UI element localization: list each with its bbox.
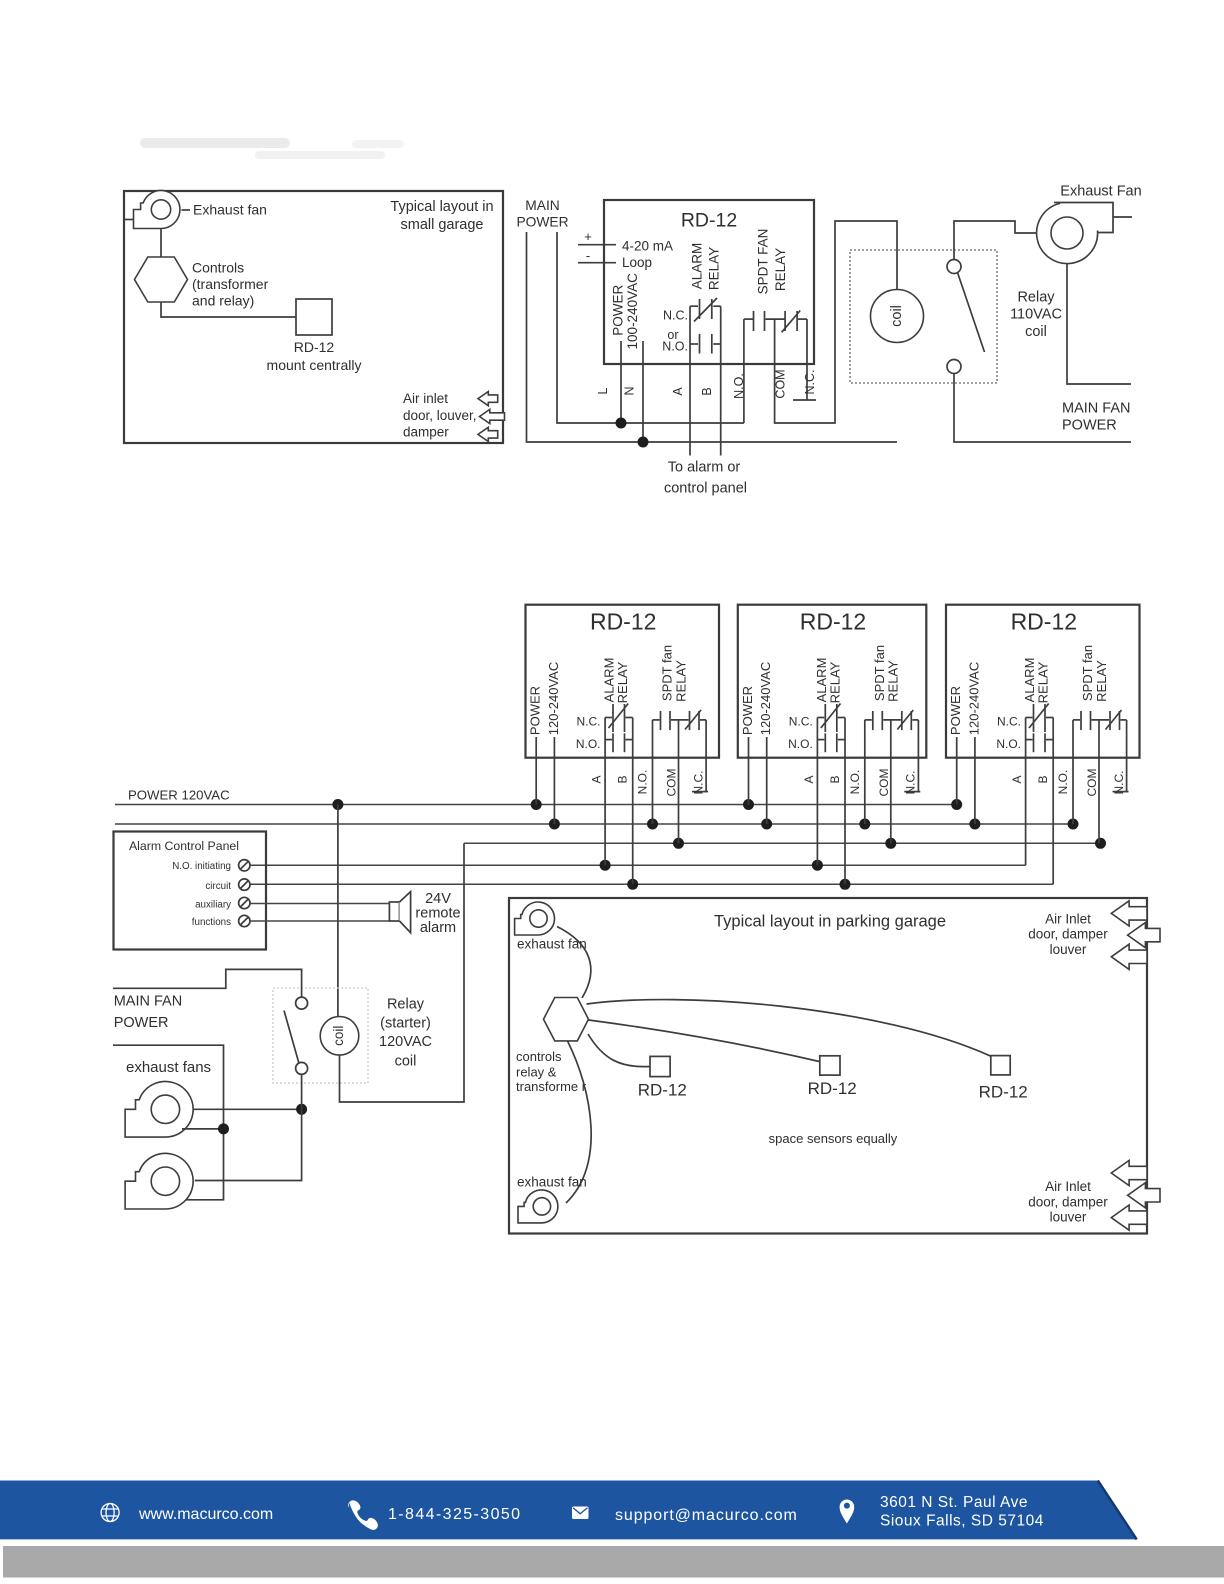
wire: terminal COM U4	[1098, 720, 1100, 843]
RD-12 unit box U2	[526, 605, 720, 758]
wire: terminal N.C. stub U4	[1126, 720, 1128, 792]
svg-text:Air Inlet: Air Inlet	[1045, 1179, 1091, 1194]
svg-text:RD-12: RD-12	[808, 1079, 857, 1098]
air inlet arrow G5	[1128, 1183, 1160, 1208]
exhaust fan F1 (small garage)	[134, 191, 180, 229]
junction dot: U2 COM on COM bus	[673, 838, 684, 849]
wire: fan outlet stub	[1114, 216, 1133, 218]
wire: main power line L	[527, 232, 898, 442]
wire: hexagon to RD-12 square	[161, 302, 296, 317]
junction dot: U2 B on initiating bus B	[627, 879, 638, 890]
wire: terminal N.C. stub U2	[705, 720, 707, 792]
SPDT fan relay contact U1	[744, 311, 807, 333]
svg-text:(starter): (starter)	[380, 1016, 431, 1032]
svg-text:Alarm Control Panel: Alarm Control Panel	[129, 839, 239, 853]
controls hexagon (transformer and relay)	[135, 257, 188, 302]
svg-text:L: L	[596, 387, 610, 394]
svg-text:B: B	[828, 775, 842, 783]
svg-text:RELAY: RELAY	[886, 660, 901, 702]
svg-text:Sioux Falls, SD 57104: Sioux Falls, SD 57104	[880, 1513, 1044, 1530]
wire: terminal T4 to remote alarm	[250, 920, 389, 922]
svg-text:N.O.: N.O.	[848, 770, 862, 795]
bus wire: initiating A	[250, 864, 1026, 866]
wire: terminal COM U3	[890, 720, 892, 843]
terminal T1	[239, 860, 250, 871]
svg-text:+: +	[584, 229, 592, 244]
svg-text:N.C.: N.C.	[904, 771, 918, 795]
RD-12 unit box U3	[738, 605, 927, 758]
svg-text:B: B	[616, 775, 630, 783]
wire: main fan power feed 2 to exhaust fans	[113, 1045, 224, 1200]
svg-text:POWER: POWER	[1062, 418, 1117, 434]
RD-12 sensor square S3	[991, 1056, 1010, 1075]
terminal T3	[239, 897, 250, 908]
junction dot N	[638, 437, 649, 448]
svg-text:Controls: Controls	[192, 260, 244, 276]
junction dot: switch leg and fan F3	[296, 1104, 307, 1115]
svg-text:COM: COM	[1085, 769, 1099, 797]
svg-text:small garage: small garage	[400, 217, 483, 233]
bus wire: initiating B	[250, 883, 1053, 885]
svg-text:COM: COM	[773, 369, 787, 398]
svg-text:SPDT fan: SPDT fan	[1080, 645, 1095, 701]
wire: power neutral lead U3	[766, 737, 768, 824]
relay coil K1	[871, 290, 924, 343]
svg-text:A: A	[802, 775, 816, 783]
svg-text:SPDT fan: SPDT fan	[872, 645, 887, 701]
RD-12 sensor square (small garage)	[296, 299, 332, 335]
starter coil K2	[320, 1017, 359, 1056]
svg-text:B: B	[1036, 775, 1050, 783]
svg-text:RD-12: RD-12	[979, 1083, 1028, 1102]
svg-text:Exhaust Fan: Exhaust Fan	[1060, 184, 1141, 200]
svg-text:N.O.: N.O.	[576, 737, 601, 751]
wire: terminal A U2	[604, 718, 606, 866]
svg-text:coil: coil	[889, 305, 905, 327]
alarm relay N.C. contact U2	[605, 704, 633, 733]
junction dot: U4 power on hot bus	[951, 799, 962, 810]
svg-text:RD-12: RD-12	[1011, 609, 1077, 635]
svg-text:louver: louver	[1050, 942, 1087, 957]
wire: terminal T3 to remote alarm	[250, 903, 389, 905]
bus wire: power hot	[115, 804, 958, 806]
svg-text:relay &: relay &	[516, 1065, 557, 1080]
svg-text:ALARM: ALARM	[689, 243, 704, 290]
junction dot: U3 A on initiating bus A	[812, 860, 823, 871]
svg-text:-: -	[586, 248, 590, 263]
wire: terminal B U4	[1052, 718, 1054, 885]
svg-text:RELAY: RELAY	[707, 247, 722, 290]
svg-text:space sensors equally: space sensors equally	[769, 1131, 898, 1146]
wire: box edge to fan F1	[124, 219, 134, 221]
svg-text:circuit: circuit	[205, 881, 231, 892]
svg-text:Relay: Relay	[1017, 290, 1055, 306]
wire: switch to fan inlet	[954, 221, 1037, 260]
wire: hexagon to RD-12 S3	[587, 1000, 991, 1056]
wire: fan F2 down to main fan power	[1067, 264, 1131, 385]
wire: starter coil return to COM bus	[340, 843, 465, 1102]
svg-text:N.C.: N.C.	[663, 309, 688, 323]
globe icon	[101, 1504, 119, 1522]
air inlet arrow 2 (small garage)	[480, 409, 505, 423]
svg-text:N.O.: N.O.	[788, 737, 813, 751]
wire: power hot lead U3	[748, 737, 750, 805]
svg-text:POWER: POWER	[114, 1015, 169, 1031]
terminal T2	[239, 879, 250, 890]
alarm relay N.C. contact U4	[1026, 704, 1054, 733]
svg-text:control panel: control panel	[664, 481, 747, 497]
4-20mA plus terminal stub	[578, 244, 616, 246]
svg-text:4-20 mA: 4-20 mA	[622, 239, 673, 254]
svg-text:RD-12: RD-12	[638, 1081, 687, 1100]
svg-text:N.C.: N.C.	[997, 715, 1021, 729]
label tick for fan F1	[182, 209, 191, 211]
junction dot: U2 power on hot bus	[531, 799, 542, 810]
wire: terminal COM U2	[678, 720, 680, 843]
svg-text:damper: damper	[403, 425, 449, 440]
svg-text:exhaust fans: exhaust fans	[126, 1059, 211, 1076]
svg-text:RD-12: RD-12	[681, 210, 737, 232]
svg-text:alarm: alarm	[420, 920, 456, 936]
location pin icon	[840, 1500, 855, 1524]
wire: terminal N.O. U3	[864, 720, 866, 824]
SPDT fan relay contact U3	[865, 710, 919, 730]
wire: terminal N.O.	[743, 319, 745, 423]
air inlet arrow 1 (small garage)	[478, 392, 498, 406]
wire: hexagon to fan F6	[566, 1041, 591, 1203]
svg-text:120-240VAC: 120-240VAC	[546, 662, 561, 735]
wire: terminal N.O. U4	[1072, 720, 1074, 824]
footer blue banner	[0, 1481, 1137, 1540]
alarm relay N.C. contact U3	[817, 704, 845, 733]
wire: terminal N.O. U2	[652, 720, 654, 824]
svg-text:110VAC: 110VAC	[1010, 307, 1062, 323]
bus wire: power neutral	[115, 823, 1073, 825]
junction dot: coil feed on hot bus	[332, 799, 343, 810]
wire: fan F3 tab to feed 2	[182, 1128, 224, 1130]
svg-text:RELAY: RELAY	[615, 661, 630, 703]
bus wire: COM	[464, 842, 1101, 844]
wire: main power line N	[557, 232, 744, 423]
svg-text:SPDT FAN: SPDT FAN	[756, 229, 771, 295]
air inlet arrow G1	[1111, 901, 1147, 926]
speaker: 24V remote alarm	[389, 892, 410, 933]
wire: terminal N.C. stub U3	[917, 720, 919, 792]
svg-text:SPDT fan: SPDT fan	[660, 645, 675, 701]
phone icon	[348, 1500, 378, 1530]
svg-text:coil: coil	[331, 1026, 346, 1046]
wire: hexagon to fan F5	[557, 927, 591, 999]
svg-text:Typical layout in parking gara: Typical layout in parking garage	[714, 913, 946, 931]
svg-text:100-240VAC: 100-240VAC	[625, 273, 640, 350]
svg-text:N.C.: N.C.	[789, 715, 813, 729]
svg-text:N.O.: N.O.	[732, 373, 746, 399]
svg-text:Exhaust fan: Exhaust fan	[193, 202, 267, 218]
starter relay dotted outline	[273, 988, 368, 1083]
wire: terminal N	[642, 341, 644, 442]
wire: power hot lead U4	[956, 737, 958, 805]
footer banner slant edge	[1098, 1481, 1137, 1540]
wire: terminal N.C. stub	[806, 319, 808, 400]
relay switch K1	[947, 260, 985, 374]
svg-text:POWER: POWER	[611, 285, 626, 336]
exhaust fan F5 (garage top)	[515, 902, 555, 935]
svg-text:MAIN FAN: MAIN FAN	[1062, 401, 1130, 417]
wire: power neutral lead U2	[553, 737, 555, 824]
svg-text:N.C.: N.C.	[1112, 771, 1126, 795]
wire: terminal COM to relay coil	[775, 221, 897, 423]
svg-text:support@macurco.com: support@macurco.com	[615, 1507, 798, 1524]
wire: hexagon to RD-12 S2	[589, 1020, 820, 1062]
SPDT fan relay contact U4	[1073, 710, 1127, 730]
svg-text:controls: controls	[516, 1049, 562, 1064]
svg-text:N.O.: N.O.	[1056, 770, 1070, 795]
alarm relay N.O. contact U3	[817, 733, 845, 752]
svg-text:120-240VAC: 120-240VAC	[758, 662, 773, 735]
Alarm Control Panel box	[114, 832, 267, 950]
svg-text:RD-12: RD-12	[590, 609, 656, 635]
svg-text:(transformer: (transformer	[192, 276, 269, 292]
svg-text:and relay): and relay)	[192, 293, 254, 309]
exhaust fan F4	[125, 1153, 193, 1209]
footer gray bar	[3, 1546, 1224, 1578]
RD-12 sensor square S2	[820, 1056, 840, 1075]
svg-text:POWER: POWER	[740, 686, 755, 735]
junction dot: U2 neutral on neutral bus	[549, 819, 560, 830]
junction dot: feed 2 and fan F3	[218, 1123, 229, 1134]
small garage layout box	[124, 191, 503, 443]
wire: hot bus down to starter coil	[337, 805, 339, 1018]
junction dot: U2 A on initiating bus A	[600, 860, 611, 871]
exhaust fan F2 (top right)	[1037, 203, 1113, 264]
svg-text:120VAC: 120VAC	[379, 1034, 432, 1050]
exhaust fan F3	[125, 1082, 193, 1138]
RD-12 unit box U1	[604, 200, 814, 364]
alarm relay N.C. contact U1	[690, 298, 721, 322]
wire: fan F1 to controls hexagon	[160, 229, 162, 258]
svg-text:RD-12: RD-12	[800, 609, 866, 635]
svg-text:120-240VAC: 120-240VAC	[966, 662, 981, 735]
wire: switch bottom to main fan power	[954, 374, 1131, 443]
air inlet arrow G6	[1111, 1205, 1147, 1230]
terminal T4	[239, 915, 250, 926]
svg-text:exhaust fan: exhaust fan	[517, 1175, 587, 1190]
junction dot: U3 COM on COM bus	[885, 838, 896, 849]
controls hexagon (garage)	[544, 998, 589, 1041]
svg-text:POWER: POWER	[528, 686, 543, 735]
svg-text:B: B	[700, 387, 714, 395]
SPDT fan relay contact U2	[653, 710, 707, 730]
junction dot: U2 N.O. on neutral bus	[647, 819, 658, 830]
wire: terminal A	[689, 306, 691, 455]
svg-text:A: A	[1010, 775, 1024, 783]
svg-text:RELAY: RELAY	[1036, 661, 1051, 703]
4-20mA minus terminal stub	[578, 262, 616, 264]
wire: hexagon to RD-12 S1	[588, 1034, 650, 1067]
svg-text:N.O. initiating: N.O. initiating	[172, 861, 231, 872]
svg-text:transforme r: transforme r	[516, 1079, 587, 1094]
wire: main fan power feed 1 to starter switch	[113, 969, 302, 996]
svg-text:coil: coil	[1025, 324, 1047, 340]
junction dot: U3 neutral on neutral bus	[761, 819, 772, 830]
wire: terminal B U2	[632, 718, 634, 885]
alarm relay N.O. contact U2	[605, 733, 633, 752]
exhaust fan F6 (garage bottom)	[518, 1190, 558, 1223]
svg-text:To alarm or: To alarm or	[668, 460, 741, 476]
svg-text:POWER: POWER	[516, 215, 568, 230]
svg-text:RELAY: RELAY	[673, 660, 688, 702]
RD-12 unit box U4	[946, 605, 1140, 758]
svg-text:door, damper: door, damper	[1028, 927, 1108, 942]
svg-text:auxiliary: auxiliary	[195, 900, 231, 911]
svg-text:www.macurco.com: www.macurco.com	[138, 1506, 273, 1523]
alarm relay N.O. contact U4	[1026, 733, 1054, 752]
air inlet arrow 3 (small garage)	[478, 427, 498, 441]
svg-text:N.O.: N.O.	[662, 340, 688, 354]
junction dot: U4 N.O. on neutral bus	[1068, 819, 1079, 830]
junction dot: U3 N.O. on neutral bus	[859, 819, 870, 830]
wire: terminal B U3	[844, 718, 846, 885]
svg-text:N.O.: N.O.	[996, 737, 1021, 751]
wire: fan F3 outlet to switch leg	[193, 1108, 301, 1110]
svg-text:A: A	[671, 387, 685, 396]
svg-text:N.C.: N.C.	[803, 370, 817, 395]
svg-text:RD-12: RD-12	[294, 339, 335, 355]
wire: terminal A U4	[1025, 718, 1027, 866]
wire: terminal A U3	[816, 718, 818, 866]
svg-text:MAIN: MAIN	[525, 198, 560, 213]
svg-text:POWER 120VAC: POWER 120VAC	[128, 788, 230, 803]
junction dot: U4 COM on COM bus	[1095, 838, 1106, 849]
air inlet arrow G2	[1128, 923, 1160, 948]
envelope icon	[572, 1507, 589, 1520]
junction dot: U3 B on initiating bus B	[840, 879, 851, 890]
svg-text:COM: COM	[877, 769, 891, 797]
ghost smudge artifacts	[140, 138, 404, 159]
svg-text:1-844-325-3050: 1-844-325-3050	[388, 1506, 521, 1523]
wire: starter switch to fan F4	[195, 1074, 302, 1180]
parking garage box	[509, 898, 1147, 1234]
svg-text:N.C.: N.C.	[577, 715, 601, 729]
svg-text:N: N	[623, 386, 637, 395]
alarm relay N.O. contact U1	[690, 334, 721, 354]
svg-text:functions: functions	[192, 917, 231, 928]
svg-text:N.O.: N.O.	[636, 770, 650, 795]
wire: power neutral lead U4	[974, 737, 976, 824]
svg-text:MAIN FAN: MAIN FAN	[114, 994, 182, 1010]
svg-text:RELAY: RELAY	[827, 661, 842, 703]
svg-text:door, louver,: door, louver,	[403, 408, 477, 423]
svg-text:Air inlet: Air inlet	[403, 391, 448, 406]
svg-text:mount centrally: mount centrally	[267, 357, 362, 373]
svg-text:A: A	[590, 775, 604, 783]
svg-text:RELAY: RELAY	[773, 248, 788, 291]
svg-text:door, damper: door, damper	[1028, 1195, 1108, 1210]
air inlet arrow G3	[1111, 944, 1147, 969]
RD-12 sensor square S1	[650, 1056, 670, 1076]
relay dashed outline	[850, 250, 997, 383]
junction dot: U3 power on hot bus	[743, 799, 754, 810]
air inlet arrow G4	[1111, 1160, 1147, 1185]
svg-text:COM: COM	[665, 769, 679, 797]
wire: power hot lead U2	[535, 737, 537, 805]
junction dot: U4 neutral on neutral bus	[969, 819, 980, 830]
svg-text:3601 N St. Paul Ave: 3601 N St. Paul Ave	[880, 1494, 1028, 1511]
svg-text:Loop: Loop	[622, 255, 652, 270]
wire: terminal B	[720, 306, 722, 455]
svg-text:Typical layout in: Typical layout in	[390, 199, 493, 215]
starter switch K2	[284, 997, 308, 1074]
svg-text:N.C.: N.C.	[691, 771, 705, 795]
svg-text:RELAY: RELAY	[1094, 660, 1109, 702]
svg-text:Relay: Relay	[387, 997, 425, 1013]
svg-text:Air Inlet: Air Inlet	[1045, 912, 1091, 927]
wire: terminal L	[620, 341, 622, 423]
svg-text:louver: louver	[1050, 1210, 1087, 1225]
svg-text:coil: coil	[395, 1054, 417, 1070]
svg-text:POWER: POWER	[948, 686, 963, 735]
junction dot L	[616, 418, 627, 429]
